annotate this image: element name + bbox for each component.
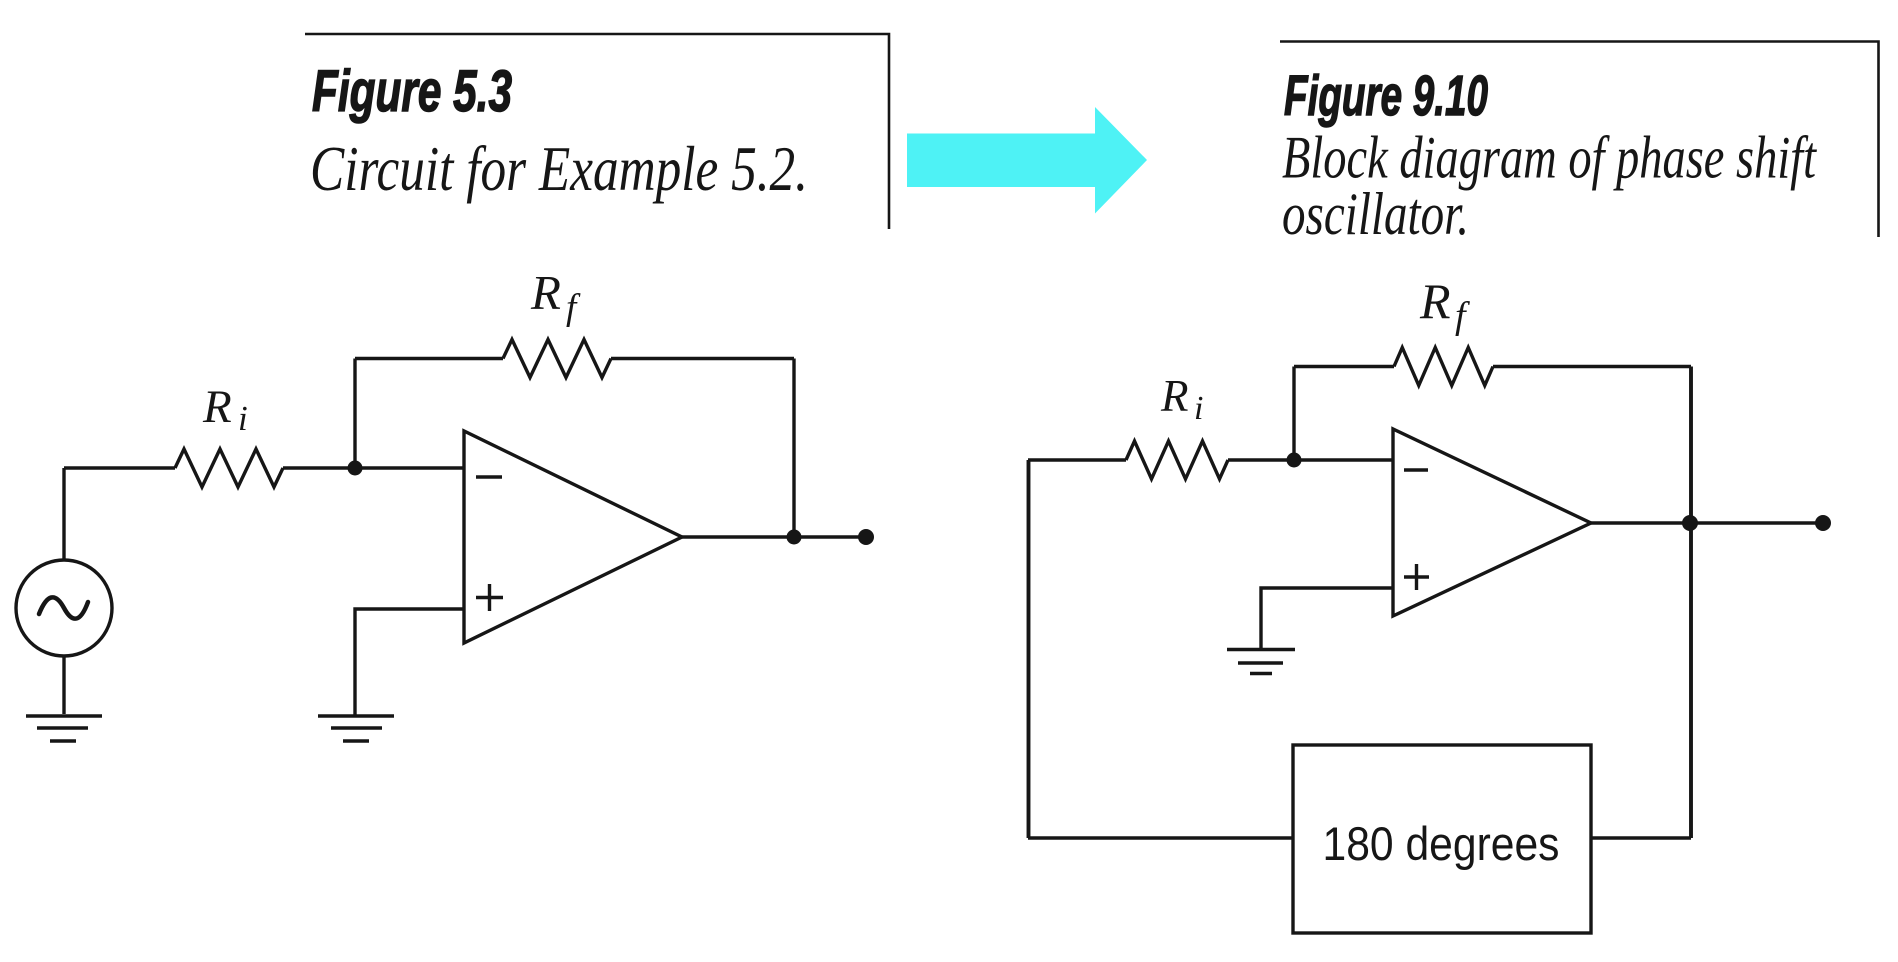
wire Ri to inverting input (right) — [1228, 458, 1393, 461]
node B junction dot (right) — [1287, 453, 1302, 468]
wire noninverting input (right) — [1261, 588, 1393, 648]
output terminal dot (right) — [1815, 515, 1831, 531]
svg-text:i: i — [238, 399, 248, 438]
svg-text:R: R — [530, 265, 561, 320]
wire bottom to phase shift box — [1028, 836, 1293, 839]
svg-text:f: f — [1455, 295, 1470, 337]
svg-text:Circuit for Example 5.2.: Circuit for Example 5.2. — [310, 133, 808, 204]
wire left vertical of feedback loop — [1027, 460, 1031, 838]
output junction dot (right) — [1682, 515, 1698, 531]
op-amp U1 triangle — [464, 431, 682, 643]
wire noninverting input — [355, 609, 464, 716]
arrow between figures — [907, 107, 1147, 214]
wire source top to main line — [62, 468, 65, 560]
ground (source) — [26, 716, 102, 741]
resistor Rf (left) — [503, 340, 611, 378]
resistor Rf (right) — [1394, 348, 1493, 386]
svg-text:oscillator.: oscillator. — [1282, 181, 1469, 247]
svg-text:180 degrees: 180 degrees — [1323, 817, 1560, 870]
svg-text:Figure 9.10: Figure 9.10 — [1284, 64, 1488, 128]
op-amp U2 triangle — [1393, 429, 1591, 616]
wire node B up to feedback (right) — [1292, 367, 1295, 461]
svg-text:R: R — [1160, 371, 1189, 421]
wire feedback top left segment (right) — [1294, 365, 1394, 368]
svg-text:i: i — [1194, 390, 1203, 427]
wire op-amp U2 output — [1591, 521, 1823, 524]
resistor Ri (right) — [1126, 441, 1228, 479]
AC source V1 circle — [16, 560, 112, 656]
wire source bottom to ground — [62, 656, 65, 714]
wire feedback right vertical (right) — [1689, 367, 1693, 839]
wire node A up to feedback — [353, 359, 356, 469]
ground (right op-amp + input) — [1227, 650, 1295, 674]
figure 9.10 caption frame — [1280, 42, 1879, 238]
ground (op-amp + input, left) — [318, 716, 394, 741]
svg-text:R: R — [202, 381, 232, 433]
figure 5.3 caption frame — [305, 34, 889, 229]
node A junction dot — [348, 461, 363, 476]
wire main horizontal left segment — [64, 466, 175, 469]
wire phase shift box to output vertical — [1591, 836, 1691, 839]
wire feedback right vertical — [792, 359, 795, 538]
wire feedback top right segment (right) — [1493, 365, 1691, 368]
op-amp U2 plus sign — [1404, 564, 1429, 590]
op-amp U1 plus sign — [476, 584, 503, 611]
op-amp U2 minus sign — [1404, 468, 1428, 471]
phase shift block 180 degrees — [1293, 745, 1591, 933]
AC source sine symbol — [39, 597, 88, 618]
wire feedback top left segment — [355, 357, 503, 360]
wire resistor Ri to inverting input — [283, 466, 464, 469]
output terminal dot (left) — [858, 529, 874, 545]
wire feedback top right segment — [611, 357, 794, 360]
op-amp U1 minus sign — [476, 475, 502, 478]
resistor Ri (left) — [175, 449, 283, 487]
wire op-amp output — [682, 535, 866, 538]
wire right circuit input loop top — [1028, 458, 1126, 461]
svg-text:f: f — [566, 287, 581, 328]
output junction dot (left) — [787, 530, 802, 545]
svg-text:Figure 5.3: Figure 5.3 — [312, 59, 512, 124]
svg-text:R: R — [1419, 273, 1451, 329]
